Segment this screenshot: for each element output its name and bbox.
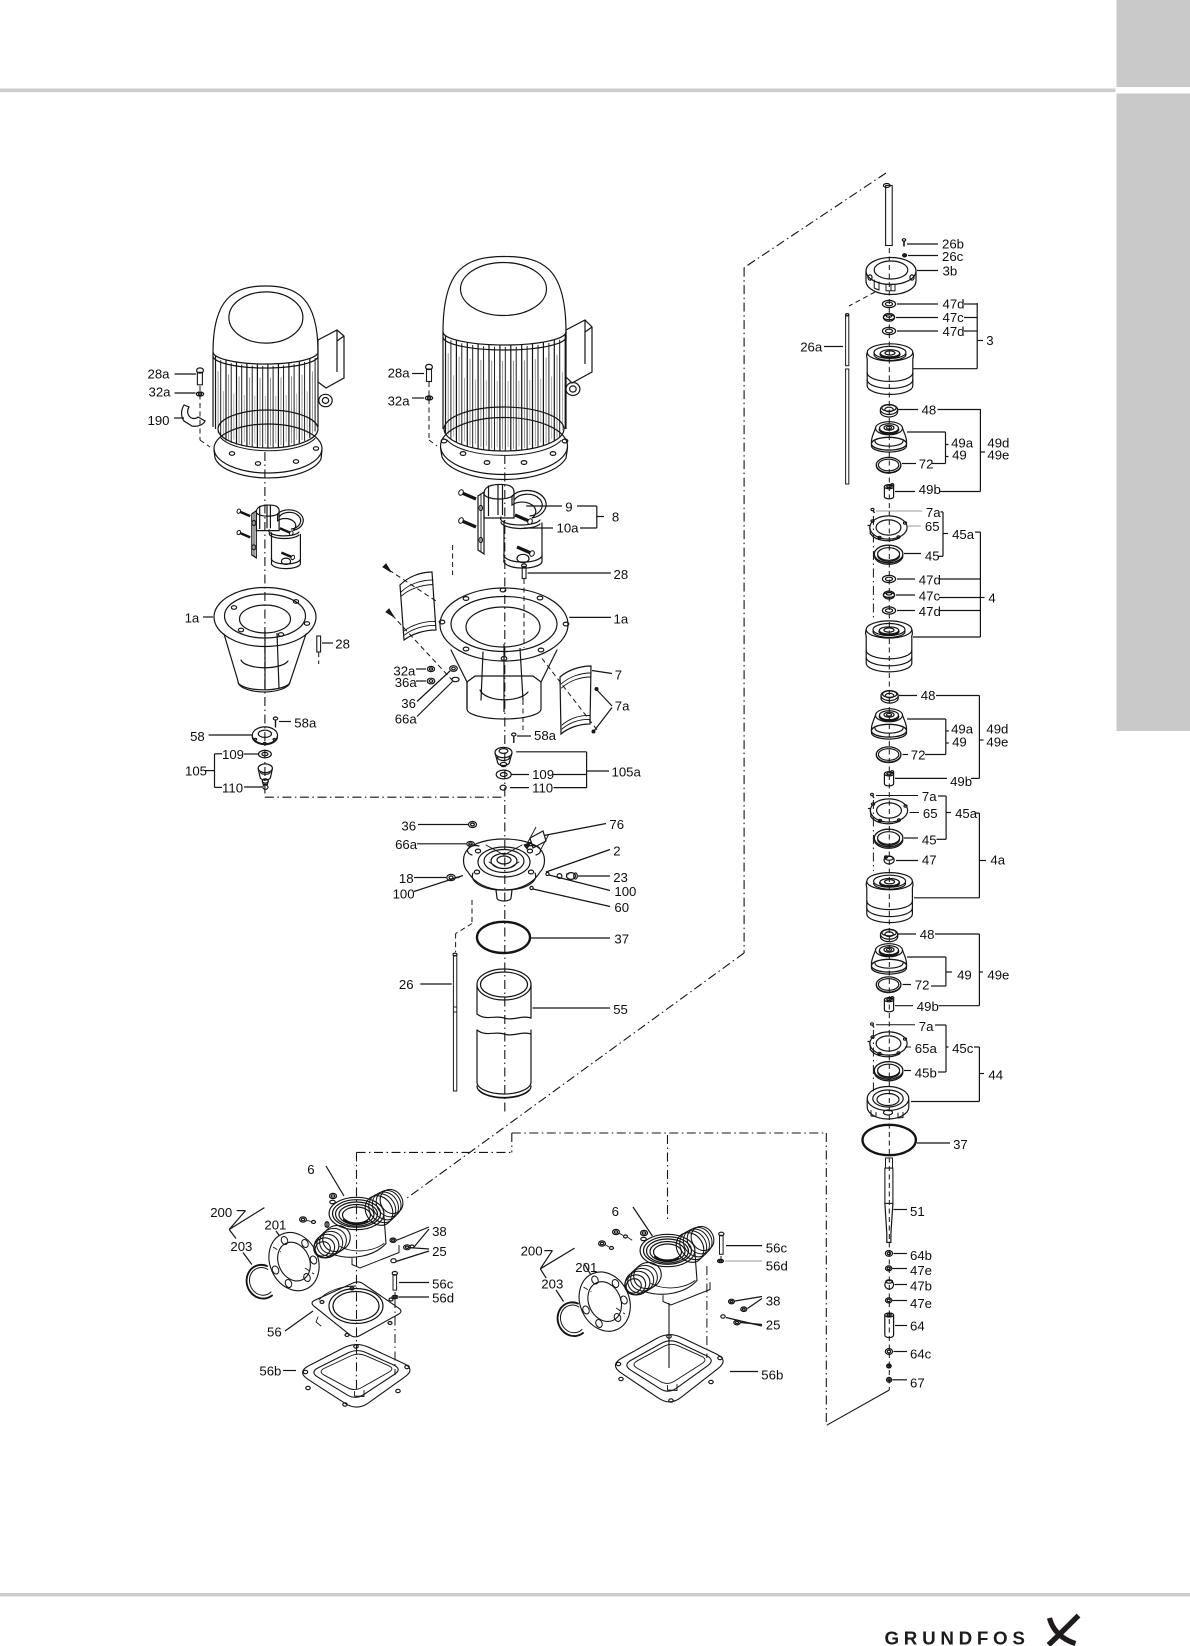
- frame diagonal bottom right: [827, 1390, 890, 1425]
- intermediate plate 56: [312, 1282, 401, 1337]
- svg-text:203: 203: [541, 1276, 563, 1291]
- bolt 25 pieces (left): [404, 1245, 411, 1250]
- svg-text:65a: 65a: [915, 1041, 938, 1056]
- plug 23: [557, 874, 562, 879]
- chamber plate 65 (g2): [870, 799, 907, 822]
- svg-text:190: 190: [148, 413, 170, 428]
- svg-text:105: 105: [185, 764, 207, 779]
- svg-text:3: 3: [986, 333, 993, 348]
- seal ring 45 (g2): [874, 829, 903, 847]
- middle motor eyebolt: [566, 383, 580, 396]
- volute 6 (middle): [640, 1234, 695, 1266]
- svg-text:49: 49: [952, 735, 967, 750]
- bracket 105a: [516, 751, 586, 753]
- chamber stack 4: [866, 621, 912, 638]
- seal ring 45b: [874, 1062, 903, 1080]
- small ring: [887, 1364, 892, 1368]
- bracket 105: [215, 753, 223, 755]
- spacer 49b (g1): [884, 485, 893, 489]
- bracket 8: [577, 505, 597, 507]
- washer 66a: [467, 842, 475, 847]
- svg-text:49e: 49e: [987, 968, 1009, 983]
- ring 47e (a): [886, 1266, 892, 1271]
- dashdot bolt axis (middle): [720, 1256, 722, 1259]
- right sidebar main block: [1117, 94, 1190, 732]
- svg-text:49b: 49b: [950, 774, 972, 789]
- frame horizontal y1133: [512, 1132, 827, 1134]
- collar 3b: [866, 258, 916, 285]
- svg-text:64: 64: [910, 1319, 925, 1334]
- chamber stack 4a: [867, 873, 913, 890]
- ring 110 (middle): [500, 785, 506, 790]
- ring 47d (group1a): [882, 300, 895, 307]
- snap ring 203 (middle): [558, 1302, 583, 1336]
- left motor eyebolt: [319, 394, 332, 406]
- svg-text:28a: 28a: [388, 366, 411, 381]
- bush 47b: [885, 1280, 894, 1289]
- bracket 3: [964, 303, 977, 305]
- flange 1a (left): [214, 588, 316, 647]
- svg-text:26a: 26a: [800, 340, 823, 355]
- svg-text:64c: 64c: [910, 1346, 932, 1361]
- dashdot bolt axis (left): [394, 1292, 396, 1295]
- bolt 56c (middle): [719, 1232, 724, 1236]
- svg-text:200: 200: [210, 1205, 232, 1220]
- svg-text:51: 51: [910, 1204, 925, 1219]
- base plate 56b (left): [303, 1345, 410, 1408]
- svg-text:110: 110: [222, 780, 243, 795]
- chamber stack 3: [867, 344, 913, 361]
- svg-text:47b: 47b: [910, 1278, 932, 1293]
- seal ring 45 (g1): [874, 545, 903, 563]
- svg-text:32a: 32a: [149, 385, 172, 400]
- svg-text:10a: 10a: [557, 521, 580, 536]
- nut 38 pieces (left): [390, 1238, 396, 1242]
- plate 7 (lower right): [560, 666, 591, 734]
- svg-text:47c: 47c: [919, 589, 941, 604]
- svg-text:3b: 3b: [943, 264, 958, 279]
- snap ring 203 (left): [247, 1265, 272, 1299]
- svg-text:28: 28: [614, 567, 629, 582]
- svg-text:8: 8: [612, 509, 619, 524]
- svg-text:56d: 56d: [766, 1259, 788, 1274]
- svg-text:6: 6: [307, 1162, 314, 1177]
- svg-text:56b: 56b: [761, 1368, 783, 1383]
- svg-text:49e: 49e: [986, 735, 1008, 750]
- svg-text:48: 48: [921, 688, 936, 703]
- svg-text:45c: 45c: [952, 1041, 974, 1056]
- svg-text:110: 110: [532, 781, 553, 796]
- bolt 28a (middle): [426, 364, 433, 369]
- svg-text:2: 2: [613, 844, 620, 859]
- left motor flange: [218, 410, 318, 448]
- nut 48 (g1): [880, 405, 897, 415]
- volute 6 (left): [329, 1197, 384, 1229]
- washer 56d (middle): [718, 1259, 724, 1262]
- plate 7 (upper left): [400, 572, 436, 640]
- svg-text:67: 67: [910, 1375, 925, 1390]
- svg-text:37: 37: [614, 932, 629, 947]
- svg-text:56c: 56c: [432, 1277, 454, 1292]
- svg-text:23: 23: [613, 870, 628, 885]
- washer 32a (flange): [427, 666, 434, 671]
- bolt 28a (left): [197, 368, 204, 373]
- ring 47c (g2): [883, 591, 894, 599]
- coupling 8 (middle): [478, 492, 484, 554]
- nut 36a: [427, 678, 435, 684]
- horizontal dashdot y797: [265, 796, 505, 798]
- dashed path to bolt 26: [471, 900, 473, 924]
- o-ring 37 (middle): [477, 922, 530, 953]
- bottom horizontal rule: [0, 1593, 1190, 1596]
- pin 7a (g3): [871, 1023, 874, 1025]
- chamber top plate 2: [464, 839, 545, 890]
- bracket 44: [974, 1046, 979, 1048]
- clamp 190: [182, 405, 205, 426]
- svg-text:76: 76: [609, 817, 624, 832]
- svg-text:47d: 47d: [943, 324, 965, 339]
- bracket 49e (g3): [935, 933, 979, 935]
- bearing 105a: [495, 747, 512, 757]
- svg-text:72: 72: [915, 978, 930, 993]
- svg-text:49e: 49e: [987, 448, 1009, 463]
- middle motor flange: [444, 407, 564, 451]
- ring 64c: [885, 1349, 892, 1355]
- svg-text:45b: 45b: [915, 1065, 937, 1080]
- svg-text:36: 36: [401, 818, 416, 833]
- svg-text:36a: 36a: [395, 675, 418, 690]
- svg-text:18: 18: [399, 871, 414, 886]
- svg-text:49b: 49b: [919, 482, 941, 497]
- flange 201 (middle): [570, 1264, 640, 1340]
- middle motor: [443, 257, 566, 333]
- svg-text:49: 49: [952, 448, 967, 463]
- bracket 4a: [975, 812, 980, 814]
- svg-text:66a: 66a: [395, 712, 418, 727]
- svg-text:48: 48: [920, 927, 935, 942]
- svg-text:201: 201: [264, 1218, 286, 1233]
- svg-text:4a: 4a: [990, 853, 1005, 868]
- dashed vert x452: [452, 545, 454, 575]
- suction interconnector 44: [867, 1087, 909, 1111]
- svg-text:56: 56: [267, 1325, 282, 1340]
- svg-text:9: 9: [565, 499, 572, 514]
- svg-text:49b: 49b: [917, 999, 939, 1014]
- bush 47: [884, 856, 894, 864]
- svg-text:28: 28: [335, 637, 350, 652]
- frame vertical x826: [825, 1133, 827, 1425]
- svg-text:72: 72: [919, 457, 934, 472]
- dashdot diagonal right of flange: [542, 659, 599, 733]
- neck ring 72 (g3): [876, 977, 901, 992]
- pin 26b: [903, 241, 905, 247]
- middle motor terminal box: [566, 320, 592, 383]
- svg-text:100: 100: [393, 886, 415, 901]
- svg-text:45a: 45a: [955, 806, 978, 821]
- svg-text:6: 6: [612, 1204, 619, 1219]
- spacer 49b (g3): [884, 998, 893, 1002]
- bolts near volute (middle): [599, 1241, 606, 1246]
- impeller 49a (g3): [876, 944, 903, 957]
- svg-text:37: 37: [953, 1137, 968, 1152]
- tie bolt 26: [453, 953, 457, 956]
- bolt+washer near volute (left): [300, 1217, 307, 1222]
- bracket 49a/49: [907, 431, 946, 433]
- svg-text:66a: 66a: [395, 837, 418, 852]
- svg-text:58: 58: [190, 729, 205, 744]
- svg-text:26: 26: [399, 977, 414, 992]
- svg-text:72: 72: [911, 748, 926, 763]
- bracket 200 (middle): [544, 1250, 552, 1252]
- svg-text:28a: 28a: [148, 367, 171, 382]
- washer 32a (left): [196, 392, 203, 396]
- svg-text:7a: 7a: [919, 1019, 934, 1034]
- svg-text:1a: 1a: [614, 611, 629, 626]
- dashdot aux axis g3: [872, 1030, 874, 1092]
- svg-text:32a: 32a: [388, 393, 411, 408]
- svg-text:7a: 7a: [615, 699, 630, 714]
- ring 67: [887, 1377, 892, 1382]
- svg-text:65: 65: [923, 806, 938, 821]
- retainer 58: [252, 727, 277, 744]
- svg-text:56b: 56b: [259, 1364, 281, 1379]
- bracket 49d/49e (g2): [936, 695, 979, 697]
- tie rod 26a: [846, 316, 849, 366]
- svg-text:58a: 58a: [534, 728, 557, 743]
- left motor terminal box: [318, 330, 344, 388]
- svg-text:7a: 7a: [926, 505, 941, 520]
- bracket 49d/49e: [938, 409, 981, 411]
- svg-text:7: 7: [615, 667, 622, 682]
- spacer 49b (g2): [884, 772, 893, 776]
- ring 47d (g2b): [882, 607, 895, 614]
- svg-text:203: 203: [230, 1239, 252, 1254]
- bracket 49 (g3): [907, 956, 946, 958]
- svg-text:36: 36: [401, 696, 416, 711]
- ring 64b: [885, 1251, 892, 1257]
- base plate 56b (middle): [615, 1335, 723, 1402]
- spacing pipe 64: [885, 1313, 894, 1317]
- pump shaft top: [883, 184, 890, 188]
- svg-text:47e: 47e: [910, 1296, 932, 1311]
- svg-text:45a: 45a: [952, 527, 975, 542]
- washer 56d (left): [392, 1295, 398, 1298]
- stud 28 (middle): [522, 564, 527, 567]
- impeller 49a (g2): [876, 709, 903, 722]
- svg-text:55: 55: [613, 1002, 628, 1017]
- svg-text:25: 25: [432, 1244, 447, 1259]
- svg-text:65: 65: [925, 519, 940, 534]
- frame drop at x512: [511, 1133, 513, 1152]
- arrow upper-left: [383, 564, 391, 572]
- svg-text:47e: 47e: [910, 1263, 932, 1278]
- bracket 49a/49 (g2): [907, 718, 946, 720]
- ring 47d (g2a): [882, 575, 895, 582]
- impeller 49a (g1): [876, 422, 903, 435]
- svg-text:45: 45: [925, 548, 940, 563]
- svg-text:25: 25: [766, 1318, 781, 1333]
- svg-text:44: 44: [988, 1067, 1003, 1082]
- dashdot aux axis g1: [872, 516, 874, 619]
- screw 18: [447, 874, 455, 880]
- ring 47d (group1b): [882, 327, 895, 334]
- svg-text:GRUNDFOS: GRUNDFOS: [885, 1628, 1030, 1646]
- chamber plate 65 (g1): [870, 516, 907, 539]
- dashed continuation bolt 28 axis: [522, 700, 524, 730]
- arrow lower-left: [386, 609, 394, 617]
- bracket 45c: [935, 1024, 946, 1026]
- left motor: [213, 286, 318, 352]
- svg-text:26c: 26c: [942, 249, 964, 264]
- neck ring 72 (g1): [876, 457, 901, 472]
- axis right column: [888, 248, 890, 1390]
- nut 36: [469, 822, 477, 828]
- ring 47e (b): [886, 1298, 892, 1303]
- nut 48 (g3): [881, 929, 898, 939]
- svg-text:48: 48: [922, 403, 937, 418]
- pump shaft 51: [886, 1158, 893, 1168]
- stud 28 (left): [317, 636, 321, 652]
- washer 66a (flange): [452, 677, 459, 681]
- dashdot aux axis g2: [872, 800, 874, 871]
- svg-text:200: 200: [521, 1244, 543, 1259]
- ring 109 (left): [259, 750, 272, 757]
- pin 7a (g2): [871, 793, 874, 795]
- screw 26c: [903, 254, 907, 257]
- axis bottom-left assembly: [356, 1152, 358, 1392]
- bearing 105: [258, 764, 272, 773]
- top horizontal rule: [0, 89, 1116, 93]
- svg-text:4: 4: [988, 591, 995, 606]
- svg-text:49: 49: [957, 968, 972, 983]
- svg-text:109: 109: [222, 747, 244, 762]
- bracket 4: [975, 531, 980, 533]
- flange 201 (left): [260, 1224, 328, 1298]
- plate 76: [530, 831, 546, 848]
- svg-text:56d: 56d: [432, 1291, 454, 1306]
- washer 32a (middle): [425, 396, 432, 400]
- ring 47c (group1): [883, 313, 894, 321]
- pin 7a (g1): [871, 508, 874, 510]
- axis left assembly: [264, 452, 266, 797]
- pin 58a (left): [273, 717, 277, 720]
- bolt 56c (left): [392, 1272, 397, 1276]
- nut 48 (g2): [881, 691, 898, 701]
- pin 58a (middle): [512, 733, 516, 736]
- left coupling assembly: [252, 511, 256, 558]
- axis middle assembly: [504, 455, 506, 1115]
- chamber plate 65a: [870, 1032, 907, 1055]
- o-ring 37 (right): [863, 1125, 916, 1155]
- flange 1a (middle): [440, 588, 568, 661]
- ring 110 (left): [263, 785, 268, 789]
- frame diagonal top (right column to middle): [744, 173, 886, 268]
- svg-text:47d: 47d: [919, 573, 941, 588]
- frame diagonal (to bottom-middle pump head): [405, 953, 744, 1200]
- bolt 25 pieces (middle): [721, 1315, 725, 1318]
- bracket 45a (g2): [938, 795, 946, 797]
- ring 109 (middle): [496, 770, 511, 779]
- bracket 45a (g1): [941, 511, 944, 513]
- dashdot 3b-26a: [849, 292, 875, 306]
- svg-text:7a: 7a: [922, 789, 937, 804]
- svg-text:1a: 1a: [185, 611, 200, 626]
- svg-text:56c: 56c: [766, 1241, 788, 1256]
- neck ring 72 (g2): [876, 747, 901, 762]
- svg-text:100: 100: [614, 884, 636, 899]
- svg-text:64b: 64b: [910, 1248, 932, 1263]
- svg-text:38: 38: [766, 1293, 781, 1308]
- nut 36 (flange): [450, 666, 458, 672]
- svg-text:47d: 47d: [919, 604, 941, 619]
- nut 38 pieces (middle): [729, 1299, 735, 1304]
- svg-text:58a: 58a: [294, 716, 317, 731]
- sleeve 55: [477, 969, 531, 1000]
- svg-text:47: 47: [922, 853, 937, 868]
- dashed line 28a-32a (middle): [428, 382, 430, 440]
- axis bottom-middle assembly: [667, 1135, 669, 1222]
- frame vertical x744: [743, 268, 745, 953]
- frame horizontal y1152: [357, 1151, 512, 1153]
- svg-text:105a: 105a: [612, 765, 642, 780]
- svg-text:38: 38: [432, 1224, 447, 1239]
- svg-text:45: 45: [922, 832, 937, 847]
- svg-text:60: 60: [614, 900, 629, 915]
- bracket 200 (left): [237, 1210, 246, 1212]
- dashed line 28a-32a (left): [199, 386, 201, 440]
- right sidebar upper block: [1117, 0, 1190, 87]
